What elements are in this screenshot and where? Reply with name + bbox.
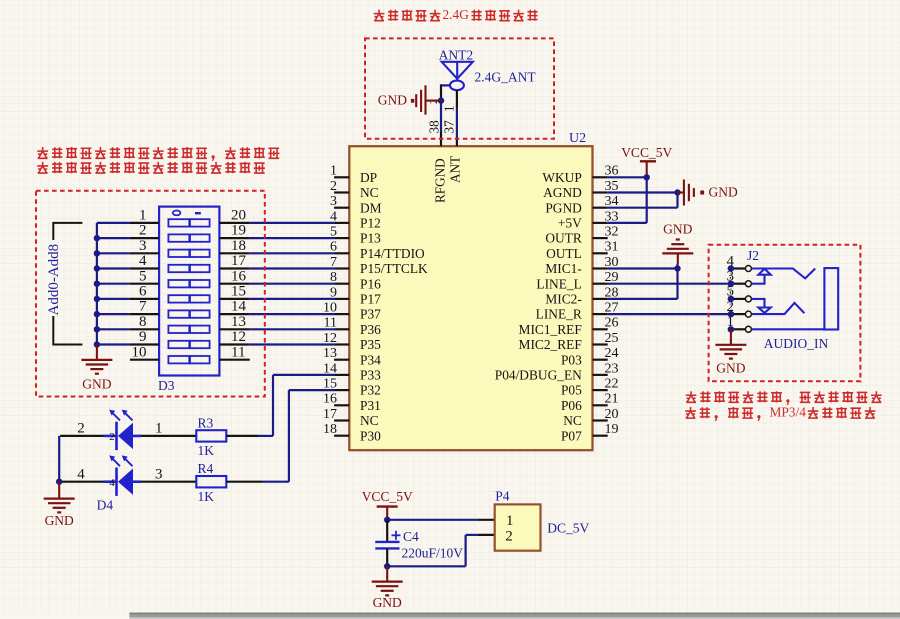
svg-text:R3: R3	[198, 415, 214, 430]
svg-text:1: 1	[441, 105, 456, 112]
svg-text:C4: C4	[403, 529, 419, 544]
svg-text:OUTL: OUTL	[546, 246, 582, 261]
svg-text:P15/TTCLK: P15/TTCLK	[360, 261, 428, 276]
svg-text:MIC2-: MIC2-	[545, 292, 581, 307]
svg-text:P07: P07	[561, 428, 582, 443]
svg-text:20: 20	[605, 407, 619, 422]
svg-text:MIC2_REF: MIC2_REF	[519, 337, 582, 352]
svg-text:2.4G: 2.4G	[443, 7, 470, 22]
svg-text:1: 1	[330, 164, 337, 179]
svg-text:16: 16	[231, 268, 247, 284]
svg-text:J2: J2	[747, 248, 759, 263]
svg-text:P34: P34	[360, 352, 381, 367]
svg-text:DP: DP	[360, 170, 377, 185]
svg-text:14: 14	[231, 299, 247, 315]
svg-text:1: 1	[139, 208, 147, 224]
svg-text:P30: P30	[360, 428, 381, 443]
svg-text:2: 2	[330, 179, 337, 194]
svg-text:3: 3	[139, 238, 147, 254]
svg-text:NC: NC	[563, 413, 582, 428]
svg-text:P05: P05	[561, 383, 582, 398]
svg-text:D3: D3	[158, 378, 175, 393]
svg-text:GND: GND	[82, 377, 111, 392]
svg-text:22: 22	[605, 377, 619, 392]
svg-text:21: 21	[605, 392, 619, 407]
svg-text:32: 32	[605, 225, 619, 240]
svg-text:9: 9	[139, 329, 147, 345]
svg-text:31: 31	[605, 240, 619, 255]
svg-text:RFGND: RFGND	[433, 158, 448, 203]
svg-text:1: 1	[506, 513, 514, 529]
svg-text:WKUP: WKUP	[542, 170, 581, 185]
svg-text:P33: P33	[360, 368, 381, 383]
svg-text:PGND: PGND	[545, 200, 582, 215]
svg-text:17: 17	[231, 253, 247, 269]
svg-text:OUTR: OUTR	[545, 231, 582, 246]
svg-text:2: 2	[139, 223, 147, 239]
svg-text:NC: NC	[360, 413, 379, 428]
svg-text:Add0-Add8: Add0-Add8	[46, 244, 62, 316]
svg-text:4: 4	[77, 466, 85, 482]
svg-text:R4: R4	[198, 461, 214, 476]
svg-text:GND: GND	[378, 93, 407, 108]
svg-text:MIC1-: MIC1-	[545, 261, 581, 276]
svg-text:U2: U2	[569, 131, 586, 146]
svg-text:37: 37	[441, 120, 456, 134]
svg-text:P03: P03	[561, 352, 582, 367]
svg-text:P06: P06	[561, 398, 582, 413]
svg-text:P31: P31	[360, 398, 381, 413]
svg-text:P37: P37	[360, 307, 381, 322]
svg-text:11: 11	[231, 344, 245, 360]
svg-text:D4: D4	[97, 498, 114, 513]
svg-text:19: 19	[231, 223, 246, 239]
svg-text:15: 15	[231, 284, 246, 300]
svg-text:2: 2	[109, 431, 115, 443]
svg-text:MIC1_REF: MIC1_REF	[519, 322, 582, 337]
svg-text:LINE_R: LINE_R	[536, 307, 582, 322]
svg-text:13: 13	[323, 346, 337, 361]
svg-text:AUDIO_IN: AUDIO_IN	[764, 336, 829, 351]
svg-text:1K: 1K	[198, 489, 215, 504]
svg-text:VCC_5V: VCC_5V	[621, 145, 672, 160]
svg-text:P16: P16	[360, 276, 381, 291]
svg-text:2.4G_ANT: 2.4G_ANT	[475, 70, 537, 85]
svg-text:GND: GND	[373, 595, 402, 610]
svg-text:ANT2: ANT2	[439, 48, 474, 63]
svg-text:220uF/10V: 220uF/10V	[402, 546, 464, 561]
svg-text:GND: GND	[45, 513, 74, 528]
svg-text:18: 18	[323, 422, 337, 437]
svg-text:1: 1	[155, 421, 163, 437]
svg-text:12: 12	[231, 329, 246, 345]
svg-text:18: 18	[231, 238, 246, 254]
svg-text:38: 38	[426, 120, 441, 134]
svg-text:GND: GND	[716, 360, 745, 375]
svg-text:ANT: ANT	[448, 156, 463, 183]
svg-text:10: 10	[132, 344, 147, 360]
svg-text:19: 19	[605, 422, 619, 437]
svg-text:NC: NC	[360, 185, 379, 200]
svg-text:P35: P35	[360, 337, 381, 352]
svg-text:23: 23	[605, 361, 619, 376]
svg-text:5: 5	[139, 268, 147, 284]
svg-text:1K: 1K	[198, 443, 215, 458]
svg-text:P4: P4	[495, 489, 510, 504]
svg-text:26: 26	[605, 316, 619, 331]
svg-text:4: 4	[139, 253, 147, 269]
svg-text:GND: GND	[709, 185, 738, 200]
svg-text:P14/TTDIO: P14/TTDIO	[360, 246, 425, 261]
svg-text:P36: P36	[360, 322, 381, 337]
svg-text:3: 3	[330, 194, 337, 209]
svg-text:16: 16	[323, 392, 337, 407]
svg-text:2: 2	[505, 528, 513, 544]
svg-text:MP3/4: MP3/4	[770, 405, 807, 420]
svg-text:20: 20	[231, 208, 246, 224]
svg-text:25: 25	[605, 331, 619, 346]
svg-text:3: 3	[155, 466, 163, 482]
svg-text:17: 17	[323, 407, 337, 422]
svg-text:7: 7	[139, 299, 147, 315]
svg-text:P17: P17	[360, 292, 381, 307]
svg-text:LINE_L: LINE_L	[536, 276, 581, 291]
svg-text:GND: GND	[663, 221, 692, 236]
svg-text:AGND: AGND	[543, 185, 582, 200]
svg-text:+5V: +5V	[558, 216, 582, 231]
svg-text:P13: P13	[360, 231, 381, 246]
svg-text:VCC_5V: VCC_5V	[362, 489, 413, 504]
svg-text:2: 2	[77, 421, 85, 437]
svg-text:P04/DBUG_EN: P04/DBUG_EN	[495, 368, 582, 383]
svg-text:8: 8	[139, 314, 147, 330]
svg-text:P12: P12	[360, 216, 381, 231]
svg-text:24: 24	[605, 346, 619, 361]
svg-text:4: 4	[109, 477, 115, 489]
svg-text:DC_5V: DC_5V	[547, 520, 589, 535]
svg-text:DM: DM	[360, 200, 382, 215]
svg-text:6: 6	[139, 284, 147, 300]
svg-text:13: 13	[231, 314, 246, 330]
svg-text:P32: P32	[360, 383, 381, 398]
